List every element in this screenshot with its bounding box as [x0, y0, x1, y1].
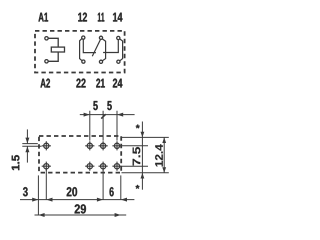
dim row2 line 29 [35, 214, 127, 216]
dim 20 arrow right [97, 198, 103, 202]
contact terminal 22 [82, 60, 85, 63]
pcb layout dashed box [39, 136, 121, 173]
contact terminal 21 [99, 60, 102, 63]
dim 5,5 middle slash [101, 114, 106, 118]
label 11 [98, 13, 104, 22]
label 3 [23, 187, 28, 196]
dim 29 arrow right [115, 213, 121, 217]
dim 5,5 arrow right [117, 113, 123, 117]
label 6 [110, 187, 114, 196]
dim 5,5 line [80, 114, 135, 116]
label 5 (first) [93, 101, 97, 110]
dim 12.4 line [163, 137, 165, 172]
wire NC contact from 12 [83, 39, 96, 52]
dim right extension hole bottom [122, 165, 149, 167]
dim 5,5 arrow left [84, 113, 90, 117]
label A1 [38, 13, 48, 22]
dim 12.4 arrow down [162, 167, 166, 173]
dim right extension hole top [122, 145, 149, 147]
hole 24 bottom [112, 162, 121, 171]
dim row1 line [20, 199, 134, 201]
label 24 [113, 79, 123, 88]
coil K1 [51, 47, 64, 52]
dim 7.5 arrow up [141, 173, 145, 179]
label 29 [75, 204, 86, 213]
hole 14 top [112, 141, 121, 150]
wire 12-22 bracket [80, 39, 82, 61]
wire 11-21 bracket [102, 39, 105, 61]
contact terminal 24 [117, 60, 120, 63]
label 1.5 (rotated) [12, 155, 20, 170]
coil terminal A2 [45, 60, 48, 63]
dim right extension box top [122, 136, 169, 138]
dim 1.5 line upper [26, 129, 28, 143]
hole 21 bottom [99, 162, 108, 171]
bottom extension line box right [120, 175, 122, 200]
label 12.4 (rotated) [155, 144, 163, 166]
label 5 (second) [107, 101, 111, 110]
bottom extension line hole 21 [102, 169, 104, 200]
dim 20 arrow left [46, 198, 52, 202]
coil wire [48, 38, 58, 61]
contact terminal 14 [117, 36, 120, 39]
dim 1.5 arrow down [25, 138, 29, 144]
dim 7.5 line [141, 122, 143, 190]
label 22 [76, 79, 85, 88]
bottom extension line hole A [45, 169, 47, 200]
relay outline dashed box (schematic) [35, 31, 125, 73]
label 12 [78, 13, 87, 22]
dim 5,5 extension lines [90, 111, 117, 141]
dim 12.4 arrow up [162, 137, 166, 143]
dim 6 arrow [121, 198, 127, 202]
label 14 [113, 13, 122, 22]
label 20 [67, 187, 77, 196]
dim 3 arrow [32, 198, 38, 202]
dim right extension box bottom [122, 172, 169, 174]
asterisk top [136, 125, 140, 129]
wire 14-24 bracket [120, 39, 123, 61]
label 7.5 (rotated) [133, 147, 141, 166]
label A2 [40, 79, 50, 88]
asterisk bottom [136, 185, 140, 189]
label 21 [96, 79, 105, 88]
armature from 11 [92, 40, 100, 57]
hole 22 bottom [85, 162, 94, 171]
dim 1.5 extension lines [22, 144, 41, 147]
dim 1.5 arrow up [25, 146, 29, 152]
hole 12 top [85, 141, 94, 150]
coil terminal A1 [45, 37, 48, 40]
hole 11 top [99, 141, 108, 150]
contact terminal 12 [82, 36, 85, 39]
dim 1.5 line lower [26, 146, 28, 162]
bottom extension line box left [37, 175, 39, 215]
hole A1 top [42, 141, 51, 150]
contact terminal 11 [99, 36, 102, 39]
dim 29 arrow left [38, 213, 44, 217]
dim 7.5 arrow down [141, 132, 145, 138]
wire NO contact from 14 [103, 40, 118, 53]
hole A2 bottom [42, 162, 51, 171]
